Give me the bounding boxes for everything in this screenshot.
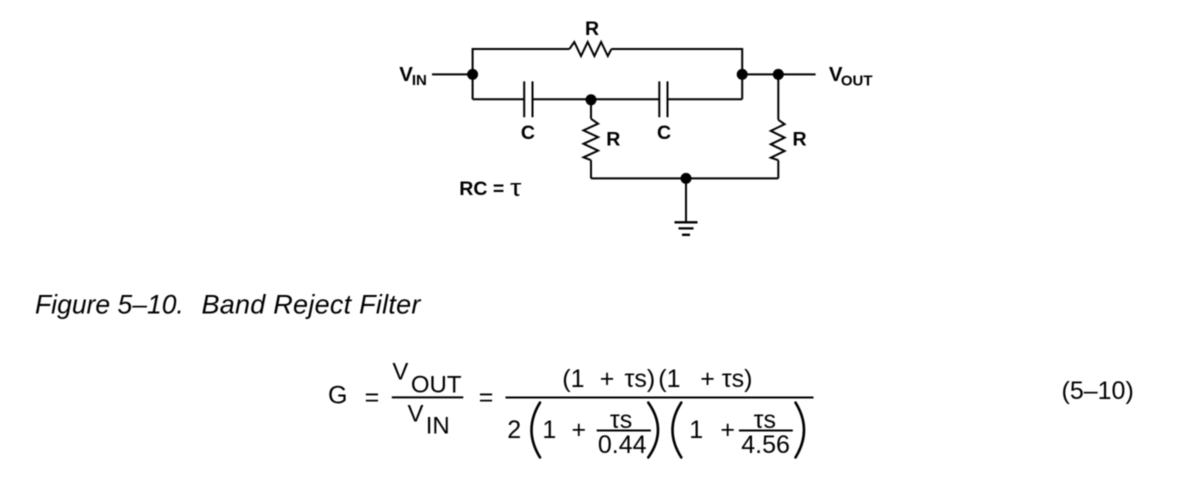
svg-text:G: G xyxy=(328,382,347,410)
svg-text:τ: τ xyxy=(510,174,522,201)
svg-text:V: V xyxy=(392,359,408,386)
svg-text:τs): τs) xyxy=(625,365,656,393)
svg-text:=: = xyxy=(365,384,380,412)
svg-text:(1: (1 xyxy=(658,365,680,393)
svg-text:=: = xyxy=(479,384,494,412)
svg-text:Figure 5–10.: Figure 5–10. xyxy=(35,289,184,319)
svg-text:C: C xyxy=(521,122,535,144)
svg-text:0.44: 0.44 xyxy=(598,431,647,459)
svg-text:1: 1 xyxy=(542,416,556,444)
svg-text:(1: (1 xyxy=(562,365,584,393)
svg-text:τs): τs) xyxy=(722,365,753,393)
svg-text:R: R xyxy=(606,128,620,150)
svg-text:R: R xyxy=(793,128,807,150)
svg-text:Band Reject Filter: Band Reject Filter xyxy=(202,289,422,319)
svg-text:1: 1 xyxy=(689,416,703,444)
svg-text:2: 2 xyxy=(507,416,521,444)
svg-text:OUT: OUT xyxy=(841,73,873,90)
svg-text:V: V xyxy=(408,401,424,428)
svg-text:R: R xyxy=(585,18,599,40)
svg-text:IN: IN xyxy=(426,413,450,440)
svg-text:+: + xyxy=(600,365,615,393)
svg-text:IN: IN xyxy=(412,72,427,89)
svg-text:RC =: RC = xyxy=(459,178,504,200)
svg-text:C: C xyxy=(657,122,671,144)
svg-text:+: + xyxy=(720,416,735,444)
svg-text:OUT: OUT xyxy=(411,372,462,399)
svg-text:+: + xyxy=(572,416,587,444)
svg-text:+: + xyxy=(700,365,715,393)
svg-text:(5–10): (5–10) xyxy=(1062,377,1134,405)
svg-text:4.56: 4.56 xyxy=(741,431,790,459)
